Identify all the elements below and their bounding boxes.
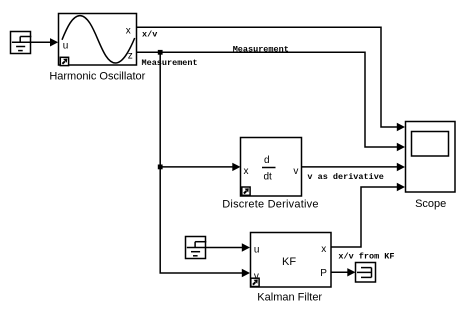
svg-text:Harmonic Oscillator: Harmonic Oscillator <box>49 71 145 83</box>
source block S2 (step icon with ground lines) <box>186 237 207 259</box>
wire branch down from junction to Kalman Filter v input <box>160 52 250 277</box>
svg-text:v as derivative: v as derivative <box>307 172 384 182</box>
svg-text:x: x <box>126 25 131 36</box>
wire branch to Discrete Derivative input <box>160 163 240 171</box>
block Discrete Derivative <box>241 138 302 197</box>
svg-text:x: x <box>244 166 249 177</box>
signal label v as derivative <box>307 172 384 182</box>
label Discrete Derivative <box>222 199 318 211</box>
svg-text:Measurement: Measurement <box>233 44 289 54</box>
junction dot at Discrete Derivative branch <box>158 165 163 170</box>
svg-text:d: d <box>264 155 270 166</box>
svg-text:Scope: Scope <box>415 198 446 210</box>
port label u (KF) <box>254 245 260 256</box>
label KF <box>282 256 296 268</box>
label Harmonic Oscillator <box>49 71 145 83</box>
svg-text:x/v from KF: x/v from KF <box>338 251 394 261</box>
svg-text:u: u <box>254 245 260 256</box>
sine wave icon <box>62 16 135 63</box>
scope screen <box>412 132 449 157</box>
svg-text:Measurement: Measurement <box>142 58 198 68</box>
signal label Measurement (middle) <box>233 44 289 54</box>
wire KF x output to Scope input 4 <box>331 183 405 247</box>
d/dt icon <box>262 155 276 183</box>
terminator block (E icon) <box>356 263 376 283</box>
signal label Measurement (left) <box>142 58 198 68</box>
svg-text:KF: KF <box>282 256 296 268</box>
svg-text:P: P <box>320 268 327 279</box>
svg-text:dt: dt <box>264 172 273 183</box>
label Scope <box>415 198 446 210</box>
port label P (KF) <box>320 268 327 279</box>
wire KF P output to terminator <box>331 268 356 276</box>
block Scope <box>406 122 456 193</box>
block Kalman Filter <box>251 233 332 288</box>
svg-text:Discrete Derivative: Discrete Derivative <box>222 199 318 211</box>
wire S1 output to Harmonic Oscillator u input <box>30 38 58 46</box>
look-under-mask badge (KF) <box>251 278 259 286</box>
port label z (oscillator) <box>128 50 133 61</box>
signal label x/v from KF <box>338 251 394 261</box>
wire Discrete Derivative v output to Scope input 3 <box>302 163 406 171</box>
port label v (KF) <box>254 271 259 282</box>
svg-text:u: u <box>63 40 69 51</box>
port label x (oscillator) <box>126 25 131 36</box>
wire S2 output to Kalman Filter u input <box>206 243 251 251</box>
label Kalman Filter <box>257 291 322 303</box>
port label u (oscillator) <box>63 40 69 51</box>
junction dot on Measurement wire <box>158 50 163 55</box>
signal label x/v <box>142 30 157 40</box>
wire x/v output to Scope input 1 <box>137 27 406 131</box>
source block S1 (step icon with ground lines) <box>11 32 32 54</box>
block Harmonic Oscillator <box>59 14 137 66</box>
svg-text:z: z <box>128 50 133 61</box>
look-under-mask badge (oscillator) <box>60 57 68 65</box>
svg-text:x: x <box>321 244 326 255</box>
svg-text:v: v <box>293 166 298 177</box>
port label x (derivative) <box>244 166 249 177</box>
wire z output (Measurement) to Scope input 2 <box>137 52 406 151</box>
port label v (derivative) <box>293 166 298 177</box>
port label x (KF) <box>321 244 326 255</box>
look-under-mask badge (derivative) <box>242 187 250 195</box>
svg-text:x/v: x/v <box>142 30 157 40</box>
svg-text:Kalman Filter: Kalman Filter <box>257 291 322 303</box>
